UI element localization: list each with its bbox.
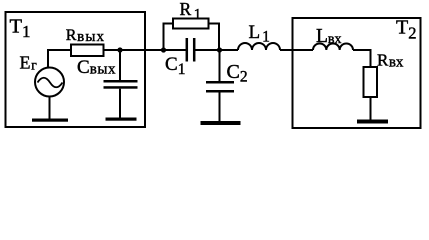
wire: Lvh to Rvh corner [353,50,371,67]
wire: Cvyh bottom [119,89,121,118]
node: Cvyh junction [117,47,122,52]
capacitor C2 [206,81,234,84]
resistor Rvh [364,67,378,97]
wire: Eg bottom [49,97,51,120]
ground bar under C2 [201,121,241,125]
block T1 box [6,12,146,127]
resistor Rvyh [71,45,104,57]
source Eg circle [35,68,64,97]
wire: C2 branch [219,50,221,82]
wire: R1 left branch [164,24,174,51]
resistor R1 [173,19,209,29]
ground bar under Rvh [357,120,388,124]
node B: C2 junction [217,47,222,52]
node A: R1 left junction [161,47,166,52]
wire: C2 bottom [219,93,221,122]
wire: Eg top to Rvyh [48,50,71,68]
inductor Lvh [313,43,353,50]
inductor L1 [238,43,280,50]
block T2 box [293,18,421,128]
wire: Cvyh branch [119,50,121,81]
svg-text:Rвых: Rвых [66,27,105,45]
ground bar under Eg [32,119,68,122]
wire: Rvyh to C1 [104,49,187,51]
capacitor Cvyh [104,80,138,83]
wire: R1 right branch [209,24,220,51]
wire: Rvh bottom [370,97,372,120]
wire: C1 to L1 [194,49,238,51]
sine wave inside Eg [38,78,63,88]
capacitor C1 [186,38,189,62]
ground bar under Cvyh [106,118,137,121]
wire: L1 to Lvh [280,49,313,51]
